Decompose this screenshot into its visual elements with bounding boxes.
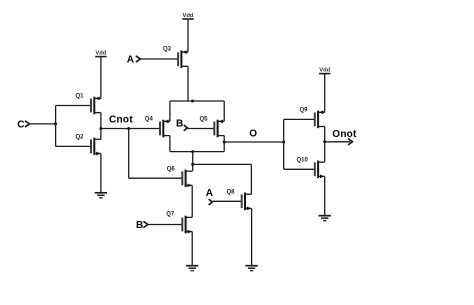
- svg-text:A: A: [206, 188, 213, 199]
- svg-text:B: B: [136, 220, 143, 231]
- svg-text:O: O: [249, 129, 257, 140]
- svg-text:Q7: Q7: [166, 212, 175, 218]
- svg-text:Q4: Q4: [145, 116, 154, 122]
- svg-text:C: C: [17, 119, 24, 130]
- svg-text:Cnot: Cnot: [109, 115, 133, 126]
- svg-text:Q3: Q3: [163, 46, 172, 52]
- svg-text:Q9: Q9: [300, 108, 309, 114]
- svg-text:Q1: Q1: [76, 94, 85, 100]
- svg-text:Vdd: Vdd: [95, 51, 106, 57]
- svg-text:Vdd: Vdd: [183, 13, 194, 19]
- svg-text:Onot: Onot: [332, 129, 357, 140]
- svg-text:Q2: Q2: [76, 135, 85, 141]
- svg-text:A: A: [127, 54, 134, 65]
- svg-text:Q5: Q5: [200, 116, 209, 122]
- svg-text:Q6: Q6: [167, 167, 176, 173]
- svg-text:Vdd: Vdd: [319, 68, 330, 74]
- svg-text:Q8: Q8: [227, 189, 236, 195]
- svg-text:B: B: [176, 118, 183, 129]
- svg-text:Q10: Q10: [297, 158, 309, 164]
